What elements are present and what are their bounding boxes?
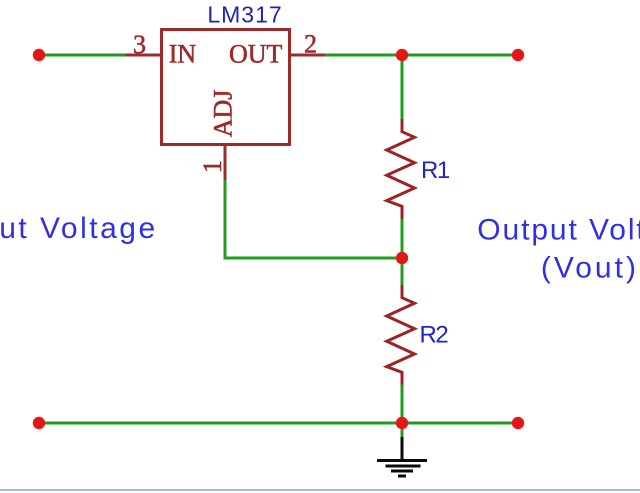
wire top-left (input rail) (39, 54, 126, 57)
svg-text:LM317: LM317 (207, 2, 282, 28)
svg-text:1: 1 (198, 160, 227, 173)
wire bottom rail (39, 422, 518, 425)
svg-text:3: 3 (133, 30, 146, 59)
svg-text:R2: R2 (420, 322, 449, 349)
wire R1 bottom to node A (401, 218, 404, 258)
pin 2 stub of U1 (289, 54, 326, 57)
pin 1 (ADJ) stub of U1 (224, 146, 227, 181)
wire R2 bottom to ground node (401, 383, 404, 423)
wire node to R1 top (401, 55, 404, 120)
node input terminal top-left (33, 49, 45, 61)
wire ADJ to node A (225, 180, 402, 258)
pin 3 stub of U1 (125, 54, 161, 57)
node A (R1/R2/ADJ junction) (396, 252, 408, 264)
resistor R1 (387, 119, 415, 219)
resistor R2 (387, 285, 415, 385)
node ground junction (396, 417, 408, 429)
svg-text:Output Voltage: Output Voltage (477, 214, 640, 247)
op-amp U1 LM317 regulator box (162, 30, 290, 145)
svg-text:OUT: OUT (229, 40, 283, 69)
svg-text:Input Voltage: Input Voltage (0, 212, 158, 245)
svg-text:2: 2 (304, 30, 317, 59)
node OUT junction (396, 49, 408, 61)
bottom border line (0, 489, 640, 491)
node ground terminal bottom-left (33, 417, 45, 429)
node output terminal top-right (512, 49, 524, 61)
ground (377, 437, 427, 476)
svg-text:R1: R1 (421, 157, 450, 184)
wire ground stub (401, 423, 404, 438)
node ground terminal bottom-right (512, 417, 524, 429)
svg-text:ADJ: ADJ (209, 90, 238, 138)
svg-text:IN: IN (169, 40, 197, 69)
wire OUT to right terminal (325, 54, 518, 57)
wire node A to R2 top (401, 258, 404, 286)
svg-text:(Vout): (Vout) (541, 252, 639, 285)
